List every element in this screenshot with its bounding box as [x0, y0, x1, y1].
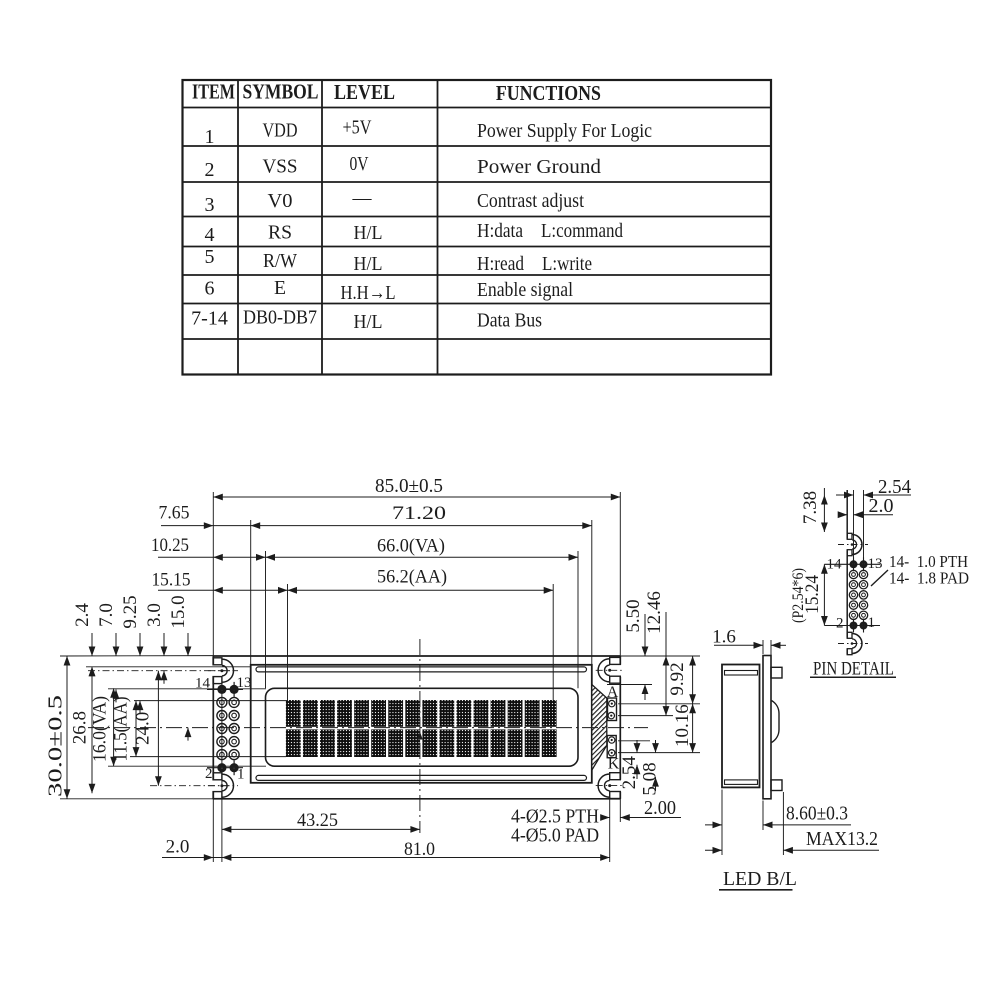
dim 15.24 (P2.54*6) [823, 564, 825, 625]
dim 43.25 [222, 828, 420, 830]
svg-text:Contrast adjust: Contrast adjust [477, 190, 584, 212]
svg-text:DB0-DB7: DB0-DB7 [243, 307, 317, 329]
dim 81.0 and 2.0 [162, 857, 610, 859]
svg-text:+5V: +5V [343, 117, 372, 139]
dim 5.50 [644, 614, 646, 656]
dim 16.0(VA) [113, 688, 115, 766]
dim 2.00 [601, 817, 610, 819]
svg-text:8.60±0.3: 8.60±0.3 [786, 804, 848, 825]
svg-text:H/L: H/L [354, 253, 383, 275]
svg-text:2.54: 2.54 [878, 477, 911, 498]
svg-text:4: 4 [205, 224, 215, 246]
dim 26.8 [91, 667, 93, 794]
svg-text:Enable signal: Enable signal [477, 279, 573, 301]
dim 9.92 [692, 656, 694, 704]
svg-text:11.5(AA): 11.5(AA) [110, 697, 131, 762]
svg-text:7.0: 7.0 [96, 603, 117, 627]
dim 85.0 [213, 496, 620, 498]
pin detail holes [824, 557, 880, 632]
dim 1.6 [762, 640, 764, 654]
svg-text:1.6: 1.6 [712, 627, 736, 648]
svg-text:43.25: 43.25 [297, 810, 338, 831]
svg-text:4-Ø5.0 PAD: 4-Ø5.0 PAD [511, 826, 599, 847]
svg-text:H:data: H:data [477, 220, 523, 242]
svg-text:LED B/L: LED B/L [723, 868, 797, 890]
dim 8.60 [721, 790, 723, 856]
mounting hole top-left [208, 658, 236, 684]
mounting hole bottom-left [208, 773, 236, 799]
dim 12.46 [665, 612, 667, 716]
pin holes 1-14 [207, 682, 243, 775]
svg-text:H.H→L: H.H→L [341, 282, 396, 304]
pin detail mounting hole top [838, 533, 868, 555]
svg-text:VSS: VSS [263, 156, 298, 178]
svg-text:85.0±0.5: 85.0±0.5 [375, 476, 443, 497]
front view PCB outline [213, 656, 620, 799]
pixel character blocks AA [286, 700, 557, 757]
svg-text:1: 1 [205, 126, 215, 148]
svg-text:10.16: 10.16 [672, 704, 693, 747]
dim 56.2(AA) and 15.15 [158, 589, 553, 591]
svg-text:H:read: H:read [477, 253, 524, 275]
svg-text:L:write: L:write [542, 253, 592, 275]
svg-text:15.0: 15.0 [168, 595, 189, 628]
svg-text:SYMBOL: SYMBOL [243, 80, 319, 104]
dim 30.0 [66, 656, 68, 799]
left extension lines [60, 656, 286, 799]
svg-text:10.25: 10.25 [151, 535, 189, 556]
centerline vertical [419, 639, 421, 833]
svg-text:V0: V0 [268, 190, 293, 212]
svg-text:26.8: 26.8 [69, 711, 90, 744]
mounting hole top-right [596, 657, 624, 683]
svg-text:L:command: L:command [541, 220, 623, 242]
svg-text:7-14: 7-14 [191, 308, 228, 330]
svg-text:30.0±0.5: 30.0±0.5 [45, 695, 66, 797]
svg-text:H/L: H/L [354, 222, 383, 244]
dim 2.0 pin detail [838, 514, 847, 516]
svg-text:2.4: 2.4 [72, 603, 93, 627]
small vertical dims 2.4 7.0 9.25 3.0 15.0 [72, 595, 192, 740]
svg-text:7.65: 7.65 [159, 503, 190, 524]
display window VA [266, 688, 579, 766]
svg-text:12.46: 12.46 [644, 591, 665, 634]
svg-text:H/L: H/L [354, 311, 383, 333]
pin detail mounting hole bottom [838, 632, 868, 654]
svg-text:A: A [607, 684, 619, 701]
bezel outline [251, 665, 592, 783]
svg-text:56.2(AA): 56.2(AA) [377, 567, 447, 588]
svg-text:PIN DETAIL: PIN DETAIL [813, 660, 894, 680]
svg-text:E: E [274, 277, 286, 299]
side view pin tabs [771, 667, 782, 678]
svg-text:Data Bus: Data Bus [477, 310, 542, 332]
right extension lines [607, 656, 700, 753]
bottom extension lines [213, 683, 620, 862]
svg-text:9.25: 9.25 [120, 595, 141, 628]
centerline horizontal [88, 727, 648, 729]
LED pad K [607, 736, 616, 758]
svg-text:9.92: 9.92 [667, 662, 688, 695]
svg-text:2: 2 [836, 616, 844, 632]
dim 5.08 right [655, 740, 657, 753]
svg-text:5.50: 5.50 [623, 599, 644, 632]
svg-text:24.0: 24.0 [132, 712, 153, 745]
svg-text:7.38: 7.38 [800, 491, 821, 524]
svg-text:1: 1 [868, 615, 876, 631]
spec table [183, 80, 772, 375]
svg-text:0V: 0V [350, 153, 369, 175]
svg-text:1: 1 [237, 767, 245, 783]
dim 66.0(VA) and 10.25 [158, 556, 578, 558]
extension lines top [213, 492, 620, 701]
svg-text:6: 6 [205, 278, 215, 300]
svg-text:3: 3 [205, 194, 215, 216]
svg-text:4-Ø2.5 PTH: 4-Ø2.5 PTH [511, 807, 599, 828]
side view backlight dome [772, 701, 780, 743]
svg-text:LEVEL: LEVEL [334, 80, 395, 104]
svg-text:3.0: 3.0 [144, 603, 165, 627]
svg-text:VDD: VDD [263, 119, 298, 141]
svg-text:14- 1.8 PAD: 14- 1.8 PAD [889, 569, 969, 588]
svg-text:15.24: 15.24 [802, 574, 823, 613]
svg-text:ITEM: ITEM [192, 80, 235, 104]
svg-text:2: 2 [205, 766, 213, 782]
svg-text:5.08: 5.08 [639, 762, 660, 795]
LED pad A [608, 698, 617, 721]
bezel bottom slot [256, 775, 587, 780]
mounting hole bottom-right [596, 773, 624, 799]
svg-text:Power Supply For Logic: Power Supply For Logic [477, 120, 652, 142]
dim 10.16 [692, 704, 694, 753]
svg-text:MAX13.2: MAX13.2 [806, 828, 878, 850]
svg-text:2.54: 2.54 [619, 756, 640, 790]
svg-text:2.0: 2.0 [166, 837, 190, 858]
dim 11.5(AA) [135, 701, 137, 757]
svg-text:R/W: R/W [263, 250, 297, 272]
svg-text:13: 13 [868, 556, 883, 572]
pin detail extension lines top [854, 490, 864, 559]
pin detail edge [846, 490, 848, 655]
svg-text:FUNCTIONS: FUNCTIONS [496, 81, 601, 105]
centerline tick arrow [417, 732, 423, 740]
dim 71.20 and 7.65 [161, 525, 592, 527]
svg-text:2.0: 2.0 [869, 496, 894, 517]
svg-text:81.0: 81.0 [404, 839, 435, 860]
dim MAX13.2 [782, 792, 784, 855]
svg-text:Power Ground: Power Ground [477, 156, 601, 178]
svg-text:2.00: 2.00 [644, 798, 676, 819]
side view PCB [763, 656, 771, 799]
svg-text:RS: RS [268, 222, 292, 244]
dim 2.54 right [636, 740, 638, 753]
svg-text:2: 2 [205, 159, 215, 181]
side view bezel body [722, 665, 760, 788]
dim 7.38 [823, 488, 825, 532]
dim 2.54 pin detail [836, 494, 854, 496]
svg-text:16.0(VA): 16.0(VA) [89, 696, 110, 762]
zebra connector hatched area [592, 685, 607, 771]
svg-text:5: 5 [205, 246, 215, 268]
bezel top slot [256, 667, 587, 672]
svg-text:15.15: 15.15 [152, 570, 191, 591]
svg-text:66.0(VA): 66.0(VA) [377, 536, 445, 557]
svg-text:71.20: 71.20 [392, 503, 446, 524]
svg-text:—: — [352, 187, 373, 209]
svg-text:14: 14 [827, 557, 843, 573]
dim 24.0 [157, 671, 159, 786]
